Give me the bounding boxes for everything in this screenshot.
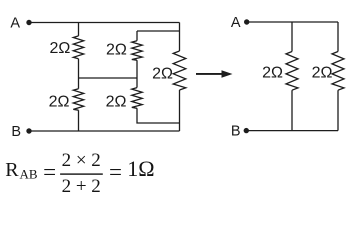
svg-text:=: =	[43, 160, 56, 185]
wire: column-2 drop from inner top link to R3	[136, 31, 138, 41]
label A (right circuit)	[231, 15, 241, 31]
wire: right parallel branch lower segment	[337, 90, 339, 130]
label A (left circuit)	[10, 16, 20, 32]
node B terminal dot (right circuit)	[244, 128, 249, 133]
wire: right branch upper segment from top rail to R5	[179, 23, 181, 52]
svg-text:2Ω: 2Ω	[106, 41, 127, 58]
arrow: reduction arrow between circuits	[196, 70, 233, 77]
wire: right parallel branch upper segment	[337, 22, 339, 52]
value label 2Ω for R5	[152, 65, 173, 82]
svg-text:B: B	[231, 124, 241, 140]
value label 2Ω for R2	[49, 94, 70, 111]
node B terminal dot (left circuit)	[26, 128, 31, 133]
svg-text:2Ω: 2Ω	[49, 94, 70, 111]
svg-text:2 + 2: 2 + 2	[62, 176, 101, 197]
svg-text:B: B	[11, 124, 21, 140]
svg-text:2Ω: 2Ω	[312, 65, 333, 82]
svg-text:AB: AB	[20, 166, 38, 181]
svg-text:R: R	[5, 159, 19, 181]
wire: column-2 bottom elbow to right branch	[137, 108, 180, 123]
wire: column-1 drop from top rail to R1	[78, 23, 80, 36]
resistor R2 2Ω (left column, bottom)	[73, 89, 83, 111]
wire: column-2 segment between R3 and R4	[136, 60, 138, 87]
resistor R6 2Ω (right circuit, left branch)	[286, 52, 298, 91]
wire: left parallel branch upper segment	[291, 22, 293, 52]
svg-text:2 × 2: 2 × 2	[62, 150, 101, 171]
svg-text:2Ω: 2Ω	[262, 65, 283, 82]
wire: column-1 segment between R1 and R2 (middle node)	[78, 59, 80, 89]
wire: top rail from node A to right side	[29, 22, 180, 24]
wire: left parallel branch lower segment	[291, 90, 293, 130]
resistor R5 2Ω (right bridging branch)	[173, 51, 186, 90]
svg-text:2Ω: 2Ω	[106, 94, 127, 111]
svg-text:=: =	[109, 160, 122, 185]
wire: bottom rail from node B to right side	[29, 130, 180, 132]
label B (left circuit)	[11, 124, 21, 140]
resistor R7 2Ω (right circuit, right branch)	[332, 52, 344, 91]
value label 2Ω for R6	[262, 65, 283, 82]
formula R_AB = (2 x 2)/(2 + 2) = 1 ohm	[5, 150, 154, 197]
svg-text:A: A	[10, 16, 20, 32]
svg-text:2Ω: 2Ω	[49, 40, 70, 57]
node A terminal dot (right circuit)	[244, 19, 249, 24]
resistor R1 2Ω (left column, top)	[73, 36, 83, 59]
label B (right circuit)	[231, 124, 241, 140]
svg-text:2Ω: 2Ω	[152, 65, 173, 82]
svg-text:A: A	[231, 15, 241, 31]
resistor R3 2Ω (column 2, top)	[132, 41, 142, 61]
resistor R4 2Ω (column 2, bottom)	[132, 88, 142, 109]
wire: inner top link from column 2 to right branch	[137, 30, 180, 32]
wire: top rail of right circuit	[247, 21, 338, 23]
wire: column-1 segment from R2 to bottom rail	[78, 110, 80, 131]
svg-text:1Ω: 1Ω	[127, 156, 154, 181]
value label 2Ω for R1	[49, 40, 70, 57]
wire: middle horizontal link between column 1 and column 2	[79, 77, 138, 79]
wire: bottom rail of right circuit	[246, 130, 338, 132]
value label 2Ω for R3	[106, 41, 127, 58]
value label 2Ω for R7	[312, 65, 333, 82]
node A terminal dot (left circuit)	[26, 20, 31, 25]
value label 2Ω for R4	[106, 94, 127, 111]
wire: right branch lower segment from R5 to bottom rail	[179, 90, 181, 131]
